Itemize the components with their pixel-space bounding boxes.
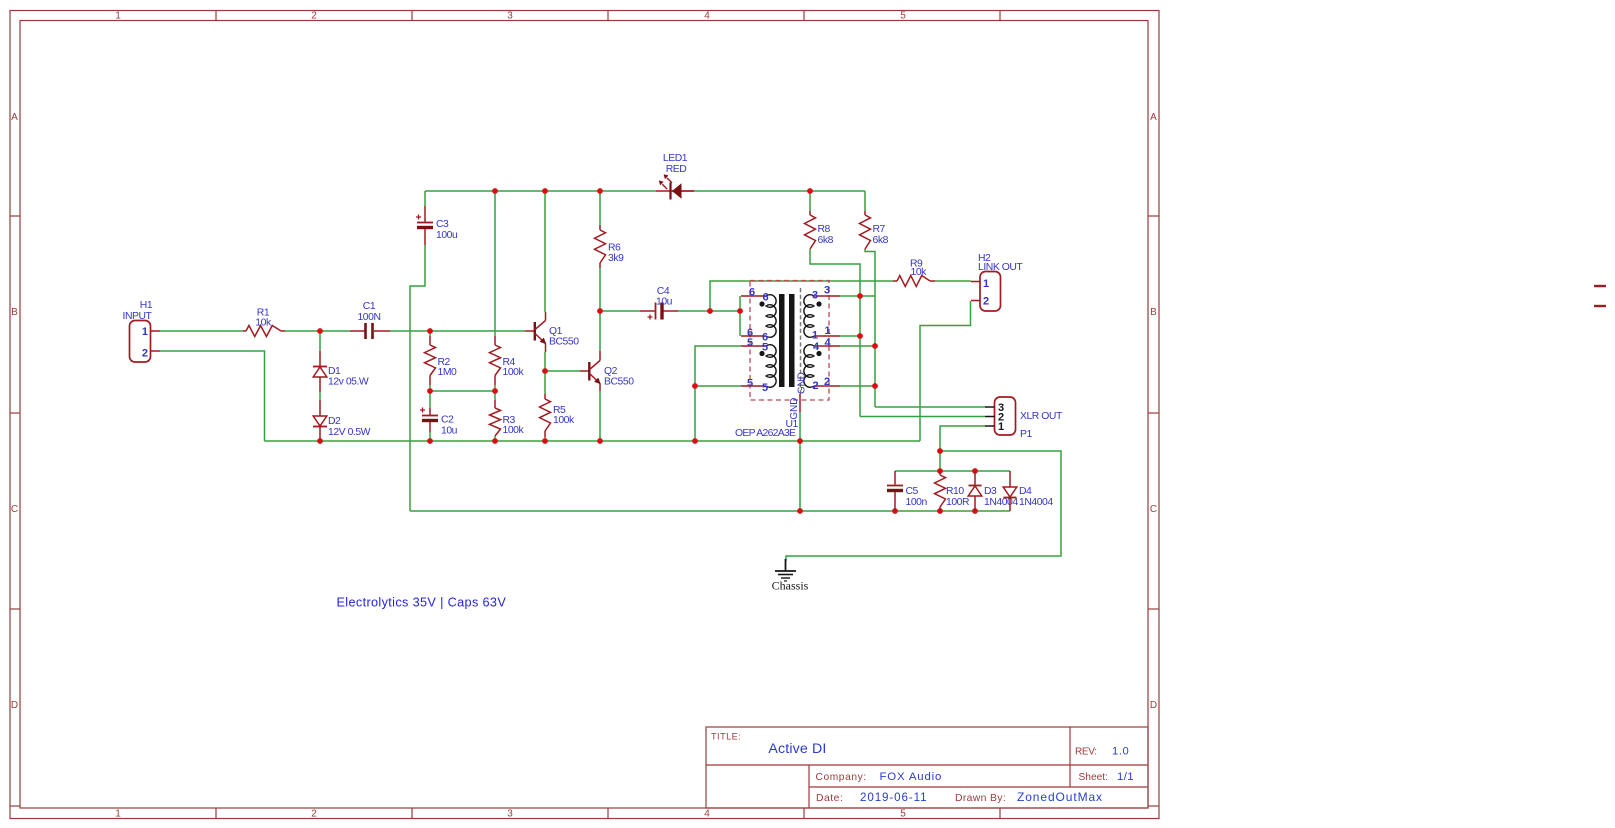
resistor R2 [425,336,458,385]
svg-text:5: 5 [762,382,768,394]
svg-text:C1: C1 [363,301,376,312]
svg-text:100N: 100N [357,312,380,323]
svg-text:10k: 10k [255,318,272,329]
wire R9 to H2 pin1 [935,280,971,282]
wire node to C4 [600,310,640,312]
wire R4 column [494,191,496,336]
svg-text:ZonedOutMax: ZonedOutMax [1017,790,1103,804]
svg-text:C4: C4 [657,286,670,297]
wire R7 drop [864,191,866,211]
wire input pin1 to R1 [160,330,243,332]
svg-text:D: D [11,700,18,711]
svg-text:100R: 100R [946,497,970,508]
svg-text:4: 4 [704,11,710,22]
wire xfmr pin2 out [840,385,875,387]
margin dash 1 [1594,285,1606,287]
capacitor C2 [420,408,458,437]
transistor Q2 [580,351,634,391]
transformer U1 [750,281,829,401]
svg-text:1M0: 1M0 [438,367,458,378]
svg-text:Active DI: Active DI [768,741,826,757]
svg-text:1: 1 [115,809,121,820]
wire xfmr 5 bottom [695,385,741,387]
svg-text:D4: D4 [1019,486,1032,497]
svg-text:A: A [11,112,18,123]
svg-text:XLR OUT: XLR OUT [1020,411,1063,422]
svg-text:2: 2 [142,348,148,360]
wire R5 bottom [544,437,546,441]
resistor R9 [893,258,935,286]
svg-text:Company:: Company: [816,772,867,783]
wire shield gnd rail crossing [799,441,801,511]
wire node to Q2 collector [599,311,601,351]
resistor R7 [860,211,889,249]
svg-text:2: 2 [983,296,989,308]
svg-text:1/1: 1/1 [1117,771,1134,783]
wire R1 to C1 [285,330,350,332]
svg-text:C5: C5 [906,486,919,497]
svg-text:R8: R8 [818,224,831,235]
svg-text:C: C [11,504,18,515]
connector H1 [123,300,160,362]
svg-text:100k: 100k [503,367,525,378]
svg-text:2: 2 [812,380,818,392]
capacitor C4 [640,286,678,320]
svg-text:OEP A262A3E: OEP A262A3E [735,428,796,439]
wire xfmr pin1 out [840,335,860,337]
svg-text:BC550: BC550 [549,337,579,348]
svg-text:D2: D2 [328,416,341,427]
svg-text:4: 4 [704,809,710,820]
svg-text:5: 5 [762,342,768,354]
svg-text:Chassis: Chassis [772,579,809,593]
svg-text:H1: H1 [140,300,153,311]
svg-text:4: 4 [813,341,820,353]
wire R6 to node [599,268,601,311]
svg-text:BC550: BC550 [604,377,634,388]
wire xfmr 5 top [695,346,741,441]
svg-text:FOX Audio: FOX Audio [880,771,943,783]
svg-text:A: A [1150,112,1157,123]
svg-text:100u: 100u [436,230,458,241]
svg-text:3: 3 [824,285,830,297]
wire R2 top [429,331,431,336]
capacitor C3 [416,206,458,245]
wire node R2-R4 [430,390,495,392]
svg-text:RED: RED [666,164,687,175]
wire Q2 emitter to rail [599,391,601,441]
wire bus A to XLR pin2 [860,416,985,418]
junction dots [317,328,323,334]
diode D1 [313,351,369,392]
svg-text:6: 6 [749,287,755,299]
transistor Q1 [525,312,579,352]
connector H2 [971,253,1023,311]
resistor R5 [540,394,575,437]
svg-text:LED1: LED1 [663,153,688,164]
wire clamp bottom rail [410,510,1010,512]
connector P1 [985,397,1063,440]
svg-text:D: D [1150,700,1157,711]
svg-text:6k8: 6k8 [873,235,889,246]
wire R7 to bus B [865,249,875,407]
wire clamp top rail [895,470,1010,472]
wire bus B to XLR pin3 [875,406,985,408]
wire C4 node to R9 row [710,281,893,311]
wire node to C2 [429,391,431,408]
wire D1 top [319,331,321,351]
svg-text:5: 5 [747,337,753,349]
sheet border frame [10,10,1159,819]
svg-text:5: 5 [747,378,753,390]
wire xfmr pin3 out [840,295,875,297]
svg-text:10k: 10k [911,267,928,278]
wire R2 bottom to node [429,385,431,391]
wire R8 to bus A [810,249,860,417]
resistor R4 [490,336,525,385]
wire ground rail [265,440,921,442]
svg-text:2: 2 [824,376,830,388]
svg-text:P1: P1 [1020,429,1032,440]
svg-text:C: C [1150,504,1157,515]
svg-text:C2: C2 [441,415,454,426]
svg-text:2019-06-11: 2019-06-11 [860,791,927,804]
svg-text:5: 5 [900,809,906,820]
resistor R3 [490,400,525,436]
svg-text:R7: R7 [873,224,886,235]
svg-text:INPUT: INPUT [123,311,153,322]
svg-text:D3: D3 [984,486,997,497]
title block frame [706,727,1148,808]
LED1 [656,153,694,200]
svg-text:100k: 100k [503,425,525,436]
svg-text:1.0: 1.0 [1112,746,1129,758]
wire C2 to rail [429,432,431,441]
capacitor C1 [350,301,390,339]
svg-text:R10: R10 [946,486,964,497]
wire rail up to H2 pin2 [920,301,971,441]
wire R6 top [599,191,601,225]
svg-text:1: 1 [824,325,830,337]
wire XLR pin1 down [940,426,985,471]
wire base Q2 [545,370,580,372]
diode D3 [968,471,1018,511]
svg-text:B: B [11,307,18,318]
resistor R1 [243,308,285,337]
svg-text:3: 3 [507,809,513,820]
wire shield gnd to rail [799,412,801,441]
svg-text:12V 0.5W: 12V 0.5W [328,427,371,438]
svg-text:LINK OUT: LINK OUT [978,262,1023,273]
svg-text:Sheet:: Sheet: [1079,772,1108,783]
svg-text:GND: GND [797,372,808,394]
svg-text:3k9: 3k9 [608,253,624,264]
wire top rail right [694,190,865,192]
svg-text:12v 05.W: 12v 05.W [328,377,369,388]
wire xfmr pin4 out [840,345,875,347]
svg-text:Date:: Date: [816,793,843,804]
svg-text:1: 1 [812,330,818,342]
diode D2 [313,400,371,441]
resistor R8 [805,211,834,249]
svg-text:D1: D1 [328,366,341,377]
wire C4 to xfmr [678,310,740,312]
wire R8 drop [809,191,811,211]
wire top rail left [425,190,656,192]
svg-text:100k: 100k [553,415,575,426]
wire Q1e to R5 [544,371,546,394]
svg-text:1: 1 [142,326,148,338]
wire R4 bottom node [494,385,496,400]
resistor R6 [595,225,625,268]
svg-text:2: 2 [311,11,317,22]
svg-text:10u: 10u [656,297,673,308]
svg-text:1: 1 [115,11,121,22]
svg-text:1N4004: 1N4004 [1019,497,1053,508]
svg-text:Q1: Q1 [549,326,563,337]
svg-text:10u: 10u [441,426,458,437]
svg-text:6: 6 [762,292,768,304]
svg-text:TITLE:: TITLE: [711,732,741,742]
wire D1-D2 link [319,392,321,400]
svg-text:Q2: Q2 [604,366,618,377]
wire input pin2 down to ground rail [160,351,265,441]
wire R3 bottom [494,436,496,441]
wire chassis run [786,451,1061,561]
svg-text:B: B [1150,307,1157,318]
svg-text:REV:: REV: [1075,747,1097,758]
svg-text:C3: C3 [436,219,449,230]
margin dash 2 [1594,305,1606,307]
wire C3 top corner [424,191,426,206]
svg-text:1: 1 [983,278,989,290]
diode D4 [1003,471,1053,511]
chassis ground [772,559,809,593]
resistor R10 [935,471,970,511]
svg-text:100n: 100n [906,497,928,508]
svg-text:R6: R6 [608,243,621,254]
svg-text:GND: GND [789,398,800,420]
wire C1 to Q1 base [390,330,525,332]
svg-text:6k8: 6k8 [818,235,834,246]
svg-text:Drawn By:: Drawn By: [955,793,1006,804]
capacitor C5 [887,471,927,511]
svg-text:5: 5 [900,11,906,22]
wire xfmr 6-6 vertical [739,296,741,336]
svg-text:3: 3 [507,11,513,22]
svg-text:1N4004: 1N4004 [984,497,1018,508]
svg-text:Electrolytics 35V | Caps 63V: Electrolytics 35V | Caps 63V [337,596,507,610]
svg-text:1: 1 [998,421,1004,433]
wire C3 bottom jog [410,245,425,511]
svg-text:2: 2 [311,809,317,820]
wire Q1 collector [544,191,546,312]
svg-text:4: 4 [824,337,831,349]
wire Q1 emitter down [544,352,546,371]
svg-text:3: 3 [812,290,818,302]
